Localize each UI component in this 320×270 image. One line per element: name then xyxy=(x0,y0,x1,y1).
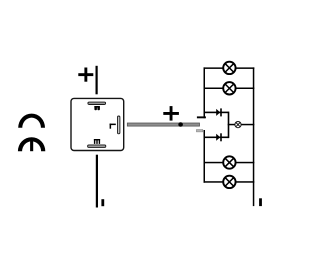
arc symbol upper (indicator beeper) xyxy=(18,114,45,128)
earth/negative mark (bottom right) xyxy=(259,198,262,206)
turn signal switch upper contact xyxy=(197,116,206,118)
terminal E spade bar of flasher xyxy=(88,145,106,148)
wire: rung 1 xyxy=(204,67,255,69)
turn signal switch lower contact (gray blade) xyxy=(196,130,202,132)
diode D1 xyxy=(216,108,222,116)
lamp 3 (right front turn signal) xyxy=(223,156,235,168)
label B (rotated 90cw) xyxy=(94,106,100,110)
node: junction dot on thick wire xyxy=(178,122,183,127)
pilot indicator lamp xyxy=(235,122,241,128)
wire: right rail (common earth side) xyxy=(253,67,255,206)
diode D2 xyxy=(216,133,222,141)
wire: flasher E terminal to earth xyxy=(96,155,98,208)
lamp 1 (left front turn signal) xyxy=(223,62,235,74)
wire: lower contact branch to diode D2 xyxy=(204,137,229,139)
lamp 2 (left rear turn signal) xyxy=(223,82,235,94)
lamp 4 (right rear turn signal) xyxy=(223,176,235,188)
thick wire: flasher L terminal to turn-signal switch pole xyxy=(127,123,199,126)
earth/negative mark (bottom of left wire) xyxy=(101,199,104,206)
wire: diode junction vertical xyxy=(228,112,230,139)
terminal B spade bar of flasher xyxy=(88,102,106,104)
wire: upper contact branch to diode D1 xyxy=(204,112,229,114)
wire: left rail lower (switch lower contact to lamps 3-4) xyxy=(204,130,206,183)
wire: diode junction to pilot lamp and right rail xyxy=(228,124,255,126)
terminal L spade bar of flasher xyxy=(118,116,120,134)
flasher relay unit (box) xyxy=(71,98,124,150)
label E (rotated 90cw) xyxy=(94,139,100,144)
arc symbol lower with centre leg xyxy=(18,137,45,151)
wire: left rail upper (lamps 1-2 to switch upper contact) xyxy=(204,67,206,118)
wire: rung 2 xyxy=(204,88,255,90)
wire: rung 3 xyxy=(204,162,255,164)
label L (rotated 90cw) xyxy=(110,124,116,129)
wire: battery positive feed to flasher B terminal xyxy=(96,66,98,95)
battery positive symbol + (top left) xyxy=(78,68,93,82)
wire: rung 4 xyxy=(204,181,255,183)
polarity + above thick wire xyxy=(163,106,179,121)
